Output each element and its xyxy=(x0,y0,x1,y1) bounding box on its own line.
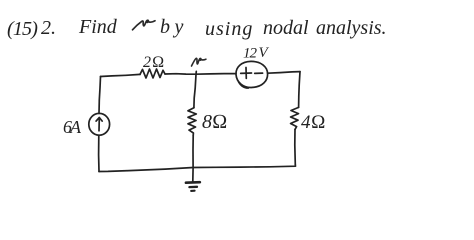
ground bar 2 xyxy=(189,186,197,189)
svg-text:8Ω: 8Ω xyxy=(202,111,227,133)
voltage source V1 circle xyxy=(236,61,268,87)
svg-text:by: by xyxy=(160,16,188,38)
svg-text:4Ω: 4Ω xyxy=(301,112,326,133)
svg-text:V: V xyxy=(259,45,270,61)
minus sign of V1 xyxy=(255,72,263,74)
ground bar 3 xyxy=(191,190,194,192)
svg-text:2Ω: 2Ω xyxy=(143,54,165,71)
wire bottom right corner to ground node xyxy=(193,165,295,168)
svg-text:6A: 6A xyxy=(63,117,82,137)
svg-text:12: 12 xyxy=(243,46,258,62)
resistor R 4ohm zigzag xyxy=(291,107,299,129)
wire resistor to node v xyxy=(165,73,196,76)
svg-text:2.: 2. xyxy=(41,17,56,39)
ground stub xyxy=(192,168,194,182)
label node v xyxy=(192,58,206,66)
wire left vertical lower xyxy=(98,135,100,171)
plus sign of V1 xyxy=(241,72,252,74)
ground bar 1 xyxy=(186,181,200,184)
wire V1 to top-right corner xyxy=(268,72,300,74)
resistor R 2ohm zigzag xyxy=(140,69,165,78)
wire right vertical upper xyxy=(299,72,300,108)
wire right vertical lower xyxy=(294,129,297,164)
svg-text:using: using xyxy=(205,18,253,40)
svg-text:nodal: nodal xyxy=(263,17,309,39)
wire node v to source V1 xyxy=(196,73,236,76)
svg-text:analysis.: analysis. xyxy=(316,17,387,39)
current source I1 circle xyxy=(89,113,110,135)
title text xyxy=(7,16,387,40)
wire bottom ground node to left corner xyxy=(99,168,193,172)
wire 8ohm down to bottom xyxy=(192,136,194,168)
resistor R 8ohm zigzag xyxy=(188,108,196,136)
svg-text:Find: Find xyxy=(78,16,118,38)
wire left vertical upper xyxy=(99,77,101,114)
voltage source V1 retrace bump xyxy=(239,82,249,88)
wire node v down to 8ohm xyxy=(194,71,196,107)
svg-text:(15): (15) xyxy=(7,18,38,40)
title script letter v xyxy=(133,20,156,30)
arrow of I1 xyxy=(98,118,100,131)
wire top-left horizontal xyxy=(101,74,141,76)
